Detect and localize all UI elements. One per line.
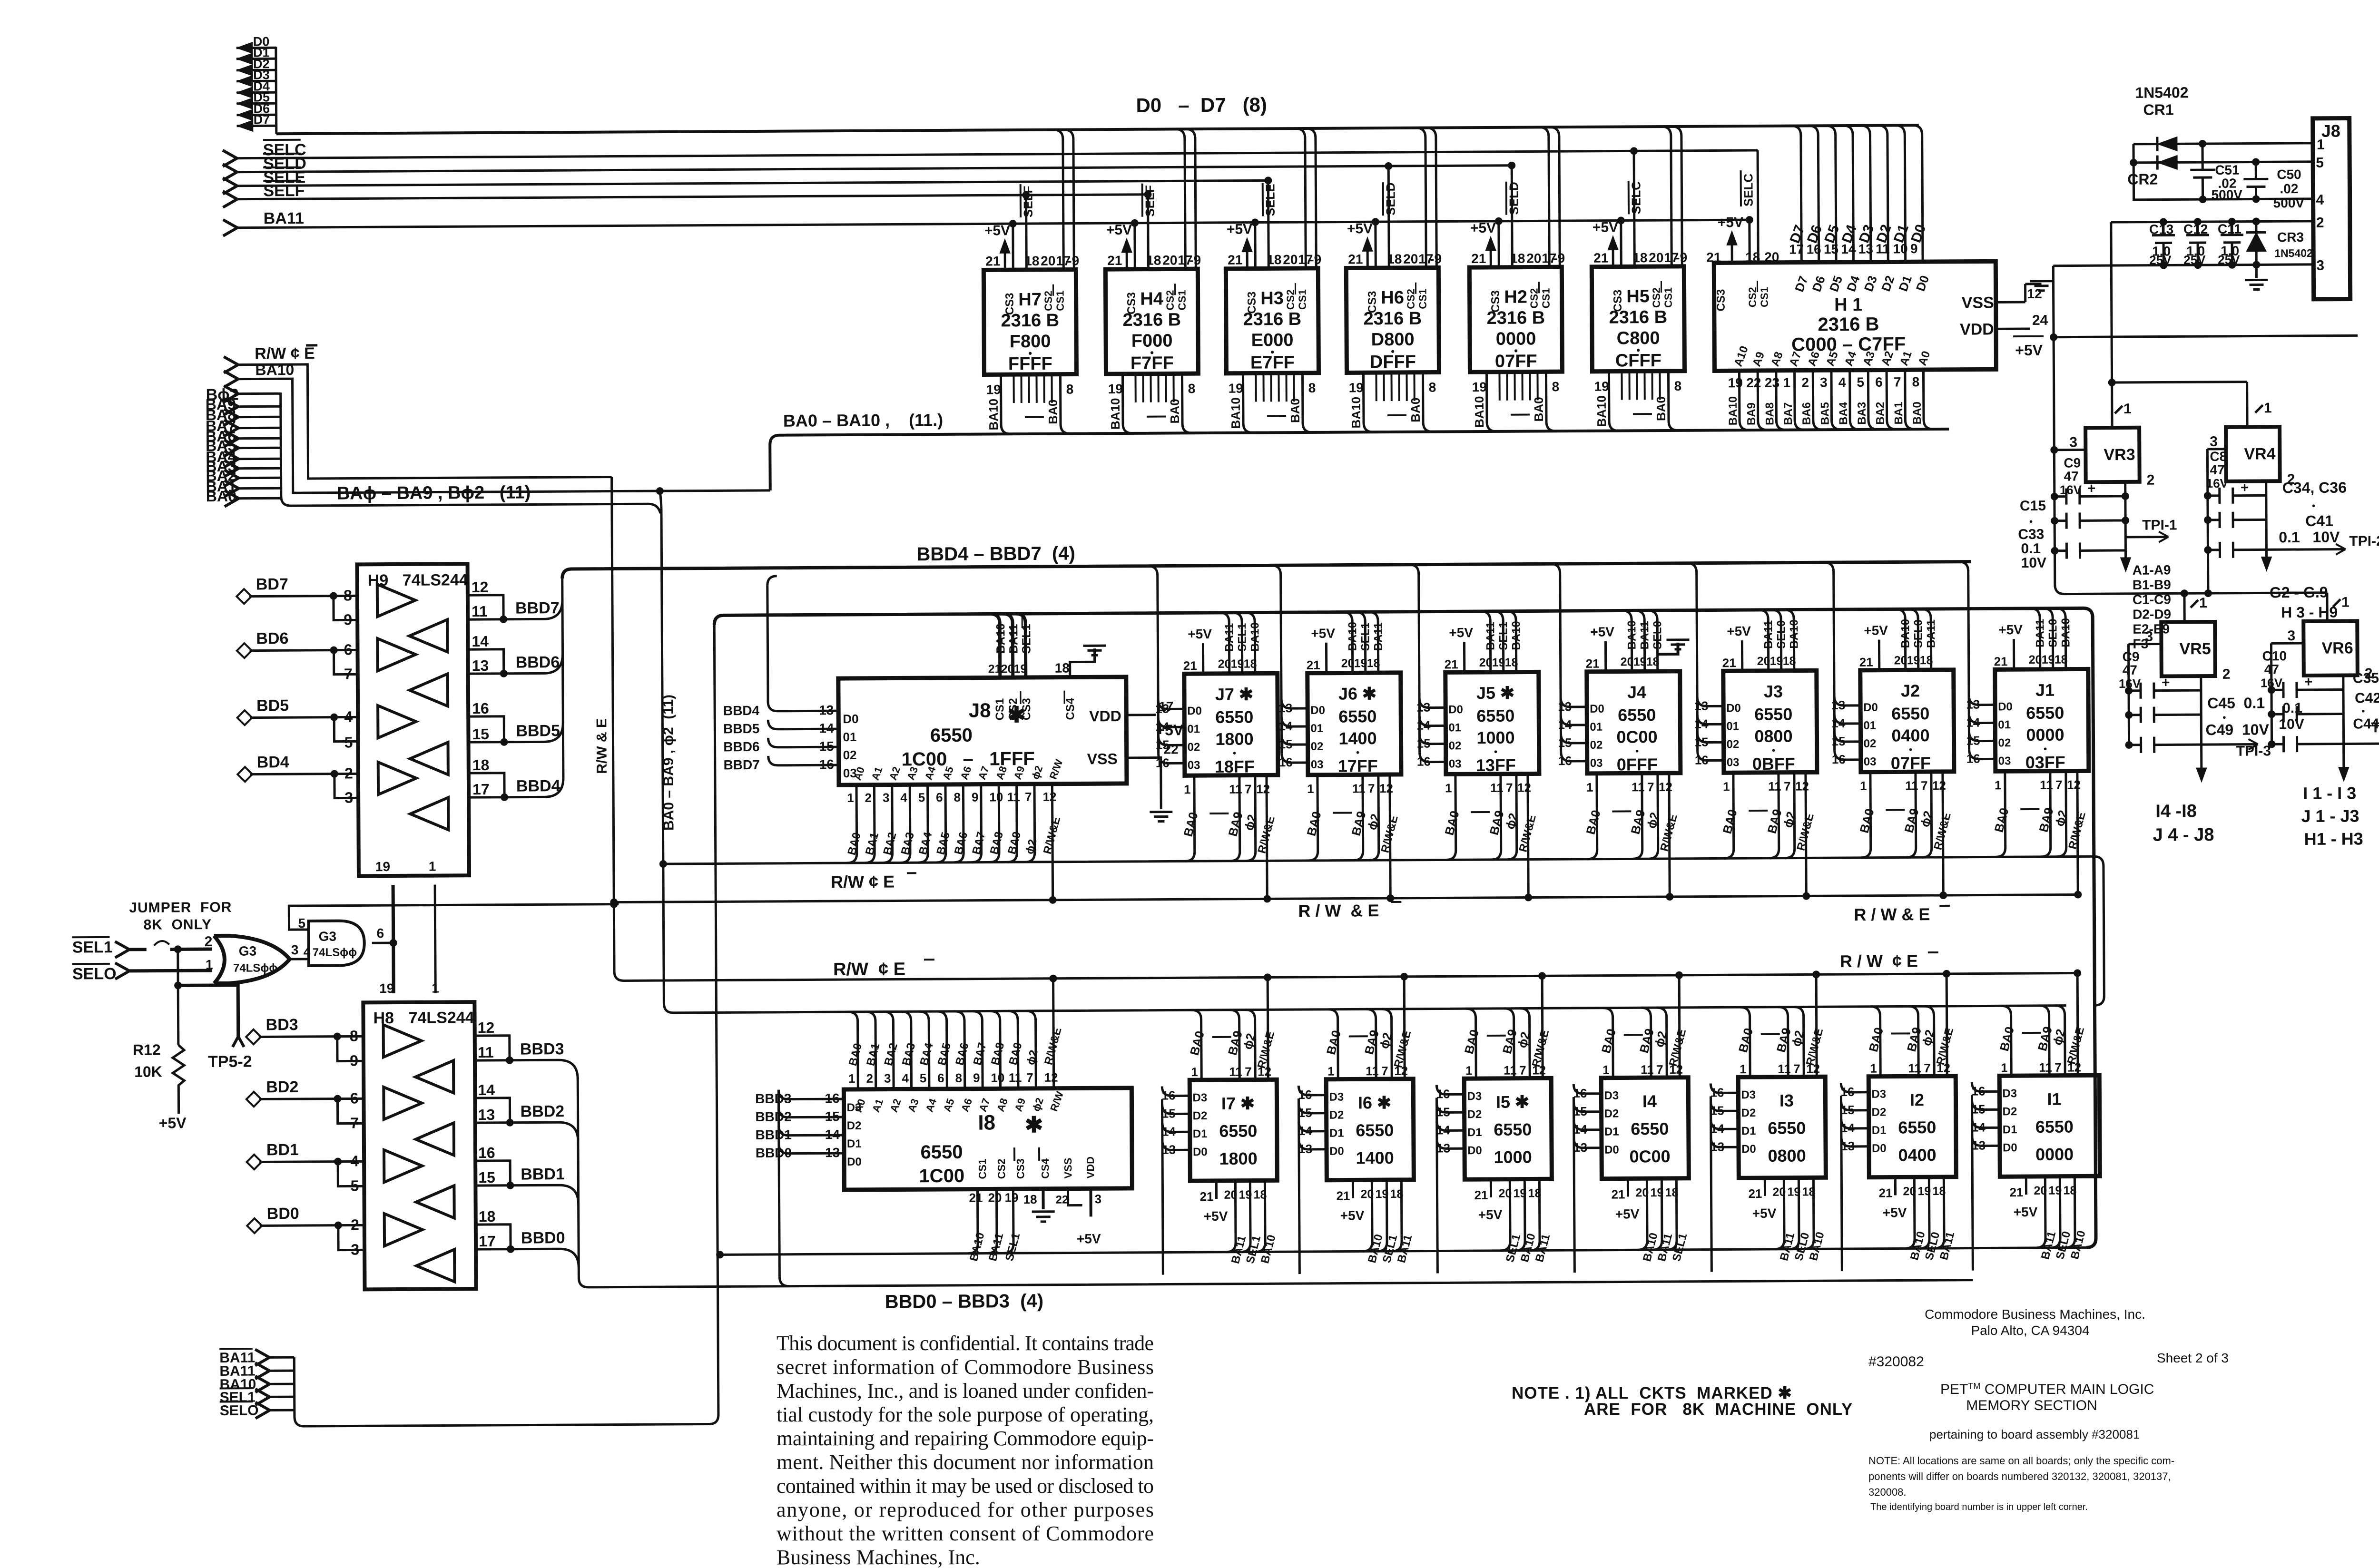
svg-text:13: 13 [1694,699,1708,713]
svg-text:500V: 500V [2211,187,2242,202]
svg-text:6550: 6550 [2026,703,2064,723]
svg-text:J6 ✱: J6 ✱ [1338,684,1376,703]
svg-text:13: 13 [1155,701,1169,715]
svg-text:+: + [2304,674,2313,690]
svg-text:H4: H4 [1140,289,1163,309]
svg-text:J 4 - J8: J 4 - J8 [2153,825,2214,845]
svg-text:+: + [2087,480,2096,496]
svg-text:74LSɸɸ: 74LSɸɸ [313,946,357,959]
svg-text:17: 17 [472,781,490,798]
ground at J4 pin 18 [1657,643,1678,654]
svg-text:02: 02 [1998,736,2011,749]
svg-text:7: 7 [1245,782,1252,796]
svg-text:+5V: +5V [1593,220,1618,235]
svg-text:14: 14 [1416,718,1431,733]
svg-text:C41: C41 [2305,512,2333,529]
svg-text:5: 5 [1857,375,1864,390]
svg-text:J7 ✱: J7 ✱ [1215,685,1253,704]
svg-text:D0: D0 [1310,704,1325,717]
svg-text:1: 1 [2123,401,2132,417]
wire J2 top pins [1859,609,1938,670]
wire G3 output down to H8 pin19 [392,943,395,993]
svg-text:13: 13 [819,703,834,717]
wire BA10 entry line [224,371,238,387]
svg-text:BA11: BA11 [1762,620,1775,649]
svg-text:11: 11 [1908,1061,1921,1075]
svg-text:7: 7 [1921,778,1928,793]
wire D4 entry [236,91,276,94]
svg-text:D3: D3 [1871,1088,1886,1101]
svg-text:D2-D9: D2-D9 [2133,607,2171,621]
gate G3b 74LS00 [298,915,372,966]
wire bottom-left entry bundle [294,1254,718,1426]
pin H1 VSS 12 with ground [1996,301,2025,304]
wire VR5 VR6 supply line [2064,593,2327,594]
svg-text:TPI-3: TPI-3 [2236,743,2271,759]
svg-text:BA11: BA11 [2034,619,2046,647]
testpoint TPI-3 [2202,743,2258,746]
svg-text:D2: D2 [1193,1109,1208,1122]
RAM I3 6550 0800 [1738,1077,1826,1178]
ROM H4 2316B F000-F7FF [1105,129,1202,433]
buffer H9 74LS244 [344,564,490,876]
svg-text:A1-A9: A1-A9 [2133,562,2171,577]
svg-text:J3: J3 [1764,682,1783,701]
wire BA3 entry [224,461,238,477]
ROM H3 2316B E000-E7FF [1225,128,1322,433]
svg-text:13: 13 [1841,1139,1855,1153]
svg-text:CR2: CR2 [2127,171,2158,188]
svg-text:D0: D0 [1604,1144,1619,1156]
svg-text:19: 19 [375,859,390,874]
svg-text:16: 16 [1832,752,1846,766]
svg-text:✱: ✱ [1025,1112,1043,1137]
svg-text:D2: D2 [1872,1106,1887,1119]
svg-text:19: 19 [1917,1185,1931,1198]
svg-text:16: 16 [472,700,489,717]
svg-text:D1: D1 [1467,1126,1482,1139]
svg-text:D0: D0 [1872,1142,1887,1155]
wire I2 left inputs riser [1840,1083,1887,1281]
svg-text:16: 16 [1279,755,1293,769]
svg-text:BD0: BD0 [267,1205,299,1223]
svg-text:BA10: BA10 [2059,618,2072,647]
svg-text:0400: 0400 [1898,1145,1936,1165]
svg-text:18: 18 [1932,1185,1946,1198]
svg-text:C13: C13 [2149,222,2174,236]
svg-text:BA0: BA0 [206,488,236,505]
svg-text:BA0 – BA9 , ɸ2 (11): BA0 – BA9 , ɸ2 (11) [660,695,677,831]
wire I3 left inputs riser [1710,1083,1757,1281]
svg-text:BA10: BA10 [1108,398,1122,430]
RAM J6 6550 1400-17FF [1307,673,1401,776]
svg-text:Business Machines, Inc.: Business Machines, Inc. [777,1546,980,1568]
svg-text:11: 11 [1007,790,1021,804]
svg-text:15: 15 [1156,737,1170,752]
svg-text:19: 19 [2042,653,2055,666]
wire BBD0-BBD3 collector vertical [578,1078,579,1278]
wire VR3 pin2 vertical [2124,482,2127,550]
svg-text:11: 11 [1229,782,1242,796]
svg-text:J2: J2 [1901,681,1920,700]
wire I7 bottom pins [1199,1180,1278,1265]
svg-text:D2: D2 [847,1119,862,1132]
testpoint TPI-1 [2125,536,2168,538]
svg-text:1: 1 [1327,1064,1335,1078]
svg-text:BBD5: BBD5 [723,721,759,736]
svg-text:BA11: BA11 [1925,619,1937,648]
svg-text:CS4: CS4 [1064,697,1077,720]
svg-text:Commodore Business Machines, I: Commodore Business Machines, Inc. [1925,1307,2145,1322]
wire BD6 input [237,643,252,658]
capacitors C9b/C45/C49 cluster at VR5 [2118,644,2201,753]
svg-text:BBD4 – BBD7 (4): BBD4 – BBD7 (4) [916,543,1075,565]
svg-text:D0: D0 [1726,702,1741,715]
svg-text:16: 16 [1156,755,1170,770]
wire Bphi2 entry [224,386,238,402]
svg-text:+5V: +5V [1449,625,1473,640]
svg-text:16: 16 [1558,754,1572,768]
svg-text:D1: D1 [2003,1123,2017,1136]
node BA10 junction to bundle [656,487,664,495]
svg-text:G3: G3 [239,944,257,959]
svg-text:03FF: 03FF [2025,753,2065,772]
svg-text:SEL0: SEL0 [1912,619,1925,648]
svg-text:3: 3 [2316,258,2324,274]
svg-text:20: 20 [1903,1185,1916,1198]
svg-text:BBD4: BBD4 [723,703,760,718]
svg-text:D7: D7 [254,112,270,127]
svg-text:CS2: CS2 [1007,698,1020,720]
svg-text:CS1: CS1 [1540,288,1552,308]
svg-text:CS3: CS3 [1003,293,1016,315]
wire SELD line [223,164,237,180]
svg-text:BA11: BA11 [1007,624,1020,654]
wire BBD4 output [469,773,504,797]
svg-text:01: 01 [1187,723,1200,735]
wire J4 top pins [1585,610,1664,672]
svg-text:19: 19 [379,981,394,996]
wire BA11 bottom entry [255,1349,269,1365]
svg-text:11: 11 [1009,1070,1022,1085]
svg-text:11: 11 [2039,1060,2052,1075]
svg-text:D1: D1 [1741,1125,1756,1137]
svg-text:14: 14 [1573,1122,1588,1137]
svg-text:18FF: 18FF [1215,757,1255,776]
svg-text:22: 22 [1746,375,1761,390]
svg-text:7: 7 [1647,780,1654,794]
svg-text:18: 18 [1023,1192,1037,1206]
svg-text:20: 20 [1283,252,1298,267]
svg-text:21: 21 [1706,250,1721,265]
wire SELF line [223,191,237,207]
svg-text:J 1 - J3: J 1 - J3 [2301,806,2359,826]
ROM H1 2316B C000-C7FF [1706,149,1996,371]
svg-text:02: 02 [1590,739,1603,752]
svg-text:+5V: +5V [1590,625,1614,639]
wire VR5 pin3 to rail [2128,643,2161,645]
svg-text:13: 13 [1278,701,1292,715]
svg-text:12: 12 [2027,286,2042,301]
diode CR3 1N5402 to ground [2245,217,2313,290]
wire SEL1 bottom entry [256,1389,270,1405]
svg-text:20: 20 [1635,1186,1649,1199]
svg-text:0BFF: 0BFF [1752,754,1795,774]
svg-text:BA10: BA10 [1510,621,1523,650]
svg-text:BD6: BD6 [256,629,288,647]
wire BA6 entry [224,431,238,447]
svg-text:19: 19 [1492,656,1505,669]
wire BA4 entry [224,451,238,467]
wire BA9 entry [224,399,238,415]
svg-text:D1: D1 [1604,1126,1619,1138]
wire middle row bottom bus [663,856,2104,1013]
svg-text:BA0 – BA10 , (11.): BA0 – BA10 , (11.) [783,410,943,431]
svg-text:I4 -I8: I4 -I8 [2155,801,2197,821]
wire G3a output to G3b [290,958,309,960]
svg-text:19: 19 [1728,375,1743,390]
svg-text:19: 19 [1239,1188,1252,1202]
svg-text:BA0: BA0 [1288,398,1302,423]
svg-text:D3: D3 [1192,1091,1207,1104]
svg-text:18: 18 [1920,654,1933,667]
wire VR4 pin2 vertical [2265,481,2268,549]
wire H1 bottom pin drops BA10-BA0 [1726,370,1933,430]
svg-text:TPI-4: TPI-4 [2371,720,2379,735]
svg-text:13: 13 [1966,697,1980,712]
svg-text:C35,: C35, [2353,670,2379,686]
svg-text:D3: D3 [1467,1090,1482,1103]
svg-text:10V: 10V [2021,555,2047,571]
capacitors C8 cluster at VR4 [2203,449,2266,558]
svg-text:+: + [2241,480,2249,496]
svg-text:D0: D0 [2003,1141,2017,1154]
svg-text:D0: D0 [1187,705,1202,717]
RAM I2 6550 0400 [1868,1076,1956,1177]
svg-text:BA10: BA10 [1594,395,1609,427]
svg-text:•: • [2361,706,2365,716]
svg-text:BBD3: BBD3 [755,1091,791,1106]
svg-text:18: 18 [1783,655,1796,668]
svg-text:19: 19 [1633,655,1647,668]
svg-text:D2: D2 [2003,1105,2017,1118]
svg-text:R/W ¢ E: R/W ¢ E [833,959,905,980]
svg-text:+5V: +5V [1311,626,1335,641]
svg-text:BA7: BA7 [1782,402,1795,425]
wire BA11 line [223,220,237,236]
wire VR6 pin3 to rail [2271,642,2303,644]
svg-text:6550: 6550 [1891,704,1929,723]
svg-text:G3: G3 [319,929,337,944]
svg-text:7: 7 [2055,778,2063,792]
wire BBD4-BBD7 collector vertical [562,578,563,778]
node R/W&E branch middle row [610,899,618,906]
svg-text:6550: 6550 [1219,1121,1257,1141]
svg-text:1: 1 [2264,400,2272,416]
svg-text:1: 1 [206,957,213,972]
svg-text:19: 19 [1787,1186,1800,1199]
svg-text:D0: D0 [1448,703,1463,716]
svg-text:BA10: BA10 [1625,620,1638,649]
svg-text:7: 7 [1026,1070,1033,1085]
svg-text:CS2: CS2 [1164,290,1176,311]
wire I4 bottom pins [1611,1178,1690,1263]
svg-text:1: 1 [1995,778,2002,792]
svg-text:BD2: BD2 [266,1078,298,1096]
ROM H2 2316B 0000-07FF [1469,127,1566,431]
svg-text:BA10: BA10 [1899,619,1912,648]
svg-text:320008.: 320008. [1868,1486,1907,1498]
svg-text:NOTE: All locations are same o: NOTE: All locations are same on all boar… [1868,1455,2174,1467]
svg-text:C34, C36: C34, C36 [2282,479,2347,497]
svg-text:12: 12 [478,1019,495,1036]
svg-text:15: 15 [1417,736,1431,751]
wire R/W&E vertical [612,470,2077,981]
svg-text:12: 12 [2067,777,2081,792]
svg-text:C12: C12 [2183,222,2208,236]
svg-text:pertaining to board assembly #: pertaining to board assembly #320081 [1929,1427,2140,1441]
svg-text:7: 7 [1245,1065,1252,1079]
svg-text:CS1: CS1 [1662,287,1674,308]
svg-text:BA11: BA11 [1372,622,1385,651]
wire J8 pin3 rail [2053,265,2313,266]
wire J6 left inputs riser [1271,565,1326,772]
pin H1 VDD 24 +5V [1996,327,2030,330]
svg-text:I8: I8 [978,1111,995,1134]
svg-text:CS2: CS2 [1651,287,1662,308]
svg-text:C9: C9 [2123,649,2140,664]
svg-text:1400: 1400 [1356,1148,1394,1167]
wire BD5 input [237,710,252,725]
svg-text:14: 14 [825,1127,840,1142]
capacitor C50 .02 500V [2243,158,2304,211]
wire BA11 bottom entry [255,1362,269,1379]
svg-text:01: 01 [1863,719,1876,732]
svg-text:8: 8 [954,790,961,804]
capacitor C13 1.0 25V [2149,218,2175,269]
svg-text:0000: 0000 [2035,1145,2074,1164]
svg-text:1N5402: 1N5402 [2135,84,2188,101]
svg-text:12: 12 [1379,781,1393,795]
svg-text:20: 20 [1757,655,1770,668]
svg-text:20: 20 [988,1190,1002,1205]
svg-text:4: 4 [2316,192,2324,208]
wire I7 left inputs riser [1161,1086,1208,1284]
svg-text:BD1: BD1 [266,1141,299,1159]
svg-text:BA11: BA11 [1638,621,1651,649]
svg-text:+5V: +5V [1998,622,2023,637]
wire J2 bottom pins [1857,772,1954,900]
svg-text:01: 01 [1590,721,1602,734]
svg-text:21: 21 [1307,658,1320,672]
wire D1 entry [236,58,276,60]
svg-text:16: 16 [1840,1085,1854,1099]
svg-text:15: 15 [1279,737,1293,751]
RAM I7 6550 1800 [1189,1079,1277,1181]
svg-text:BA0: BA0 [1654,396,1668,421]
svg-text:21: 21 [1878,1186,1892,1200]
svg-text:D0: D0 [1193,1146,1208,1158]
ROM H7 2316B F800-FFFF [983,129,1080,434]
wire I1 bottom pins [2009,1176,2088,1261]
wire BA collector vertical and bus to bundle [281,391,660,515]
svg-text:BBD6: BBD6 [516,653,560,671]
svg-text:14: 14 [1298,1124,1313,1138]
svg-text:22: 22 [1056,1194,1069,1206]
svg-text:CS1: CS1 [1054,291,1066,311]
capacitor C11 1.0 25V [2218,218,2244,269]
capacitors C9/C15/C33 cluster at VR3 [2017,455,2129,571]
wire BBD0-BBD3 bus [579,1271,1973,1287]
wire BD0 input [247,1218,262,1233]
svg-text:20: 20 [1764,250,1779,265]
svg-text:03: 03 [1311,758,1324,771]
svg-text:20: 20 [1894,654,1907,667]
svg-text:CS2: CS2 [1747,287,1759,307]
svg-text:21: 21 [1336,1188,1350,1203]
wire SELC line [223,150,237,167]
svg-text:15: 15 [1832,734,1846,748]
svg-text:SELO: SELO [220,1403,259,1419]
svg-text:15: 15 [1972,1102,1986,1117]
svg-text:Sheet 2 of 3: Sheet 2 of 3 [2157,1351,2229,1365]
svg-text:19: 19 [1513,1187,1526,1200]
svg-text:B1-B9: B1-B9 [2133,577,2171,592]
svg-text:I3: I3 [1779,1091,1794,1110]
svg-text:3: 3 [291,942,299,957]
svg-text:14: 14 [472,633,489,650]
wire BBD0 output [476,1225,511,1249]
svg-text:BBD0: BBD0 [521,1229,565,1247]
svg-text:BA10: BA10 [986,399,1001,431]
svg-text:BD3: BD3 [266,1016,298,1034]
wire I3 top pins [1735,970,1826,1077]
svg-text:11: 11 [1229,1065,1242,1079]
svg-text:BA4: BA4 [1837,402,1850,425]
RAM I4 6550 0C00 [1601,1078,1689,1179]
labels A1-A9 groups [2133,562,2172,651]
svg-text:20: 20 [1479,656,1493,669]
svg-text:14: 14 [1694,717,1709,731]
svg-text:21: 21 [1474,1188,1488,1202]
svg-text:H 3 - H9: H 3 - H9 [2281,604,2338,621]
wire G3b pin5 loop [289,904,619,930]
svg-text:TP5-2: TP5-2 [208,1053,252,1071]
svg-text:BA10: BA10 [1229,397,1243,429]
svg-text:20: 20 [2029,653,2042,666]
svg-text:12: 12 [1044,1070,1058,1085]
svg-text:14: 14 [1558,717,1572,732]
svg-text:5: 5 [920,1071,927,1085]
wire J7 bottom pins [1180,775,1278,903]
connector J8 [2313,118,2350,299]
svg-text:without the written consent of: without the written consent of Commodore [777,1522,1154,1545]
svg-text:6550: 6550 [1618,705,1656,725]
svg-text:C8: C8 [2210,449,2227,464]
svg-text:I6 ✱: I6 ✱ [1358,1093,1391,1112]
svg-text:BA0: BA0 [1911,402,1924,424]
svg-text:SELD: SELD [1506,182,1521,215]
svg-text:D0: D0 [847,1156,862,1168]
svg-text:02: 02 [1188,741,1200,754]
svg-text:14: 14 [1711,1121,1725,1136]
svg-text:D2: D2 [1741,1107,1756,1119]
svg-text:1: 1 [847,791,854,805]
svg-text:1: 1 [1586,780,1593,794]
wire J8 pin2 rail [2111,221,2313,222]
wire BA1 entry [225,480,239,497]
regulator VR6 [2287,594,2373,682]
